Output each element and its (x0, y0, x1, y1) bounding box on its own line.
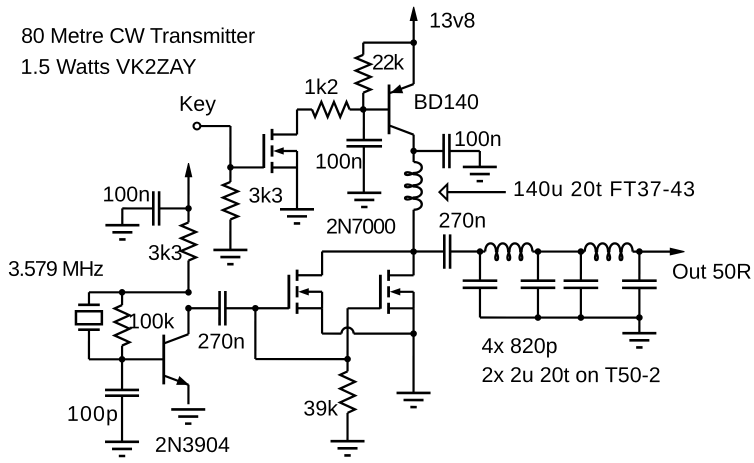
svg-text:3k3: 3k3 (249, 183, 284, 207)
node Q2 collector junction (410, 148, 417, 155)
capacitor C5 270n (220, 291, 226, 325)
ground below C6 (105, 442, 139, 456)
wire C10 bottom lead (638, 288, 640, 317)
wire C7 bottom lead (479, 288, 481, 317)
wire filter mid rail (538, 250, 585, 252)
wire M2 source right (322, 332, 341, 334)
svg-text:100n: 100n (454, 127, 502, 151)
svg-text:1.5 Watts VK2ZAY: 1.5 Watts VK2ZAY (21, 55, 197, 79)
node filter mid2 (578, 248, 585, 255)
wire L3 lead out (633, 250, 640, 252)
wire RFC top lead (413, 151, 415, 162)
wire crystal bottom rail (89, 358, 164, 360)
node gate junction (252, 305, 259, 312)
wire M3 drain up (412, 252, 414, 276)
node Q1 collector junction (185, 305, 192, 312)
svg-text:100p: 100p (67, 402, 118, 426)
transistor M2 2N7000 PA (289, 270, 322, 314)
svg-text:13v8: 13v8 (429, 9, 475, 33)
transistor M1 2N7000 keying (264, 129, 297, 173)
wire C7 top lead (479, 252, 481, 281)
wire to output (639, 250, 671, 252)
wire key corner down (229, 126, 231, 167)
node bottom out (636, 314, 643, 321)
wire 1k2 right lead (350, 108, 364, 110)
wire crystal top lead (88, 292, 90, 305)
node bottom mid1 (535, 314, 542, 321)
wire L2 lead in (480, 250, 485, 252)
resistor R4 3k3 (181, 222, 196, 260)
wire M1 drain up (296, 109, 298, 134)
svg-text:2N3904: 2N3904 (155, 433, 230, 457)
wire gate bottom (255, 358, 347, 360)
wire gate junction to M2 (255, 307, 289, 309)
svg-text:39k: 39k (303, 396, 338, 420)
wire RFC bottom lead (412, 210, 414, 252)
svg-text:2x 2u 20t on T50-2: 2x 2u 20t on T50-2 (481, 363, 660, 387)
node filter in (477, 248, 484, 255)
key terminal (194, 123, 201, 130)
ground below R3 (213, 250, 247, 264)
wire M1 source down (296, 167, 298, 209)
capacitor C4 270n (444, 234, 450, 268)
wire 13v8 riser (413, 18, 415, 43)
wire R5 bottom lead (121, 346, 123, 360)
wire R4 top lead (187, 208, 189, 222)
wire C6 top lead (121, 359, 123, 390)
transistor M3 2N7000 PA (380, 270, 413, 314)
wire R4 bottom lead (187, 261, 189, 293)
resistor R2 1k2 (312, 102, 350, 117)
node key junction (227, 164, 234, 171)
node supply junction (410, 39, 417, 46)
wire R3 top lead (229, 167, 231, 182)
inductor L2 2u (485, 243, 532, 260)
capacitor C7 820p (463, 281, 498, 288)
node R5 top (119, 289, 126, 296)
transistor Q2 BD140 (389, 43, 414, 151)
resistor R1 22k (356, 55, 371, 93)
svg-text:Key: Key (179, 92, 216, 116)
ground below Q1 emitter (171, 409, 205, 423)
wire to C3 (414, 150, 444, 152)
ground below filter (622, 333, 656, 347)
wire C8 bottom lead (537, 288, 539, 317)
wire key to M1 gate (230, 166, 263, 168)
wire filter bottom rail (480, 316, 639, 318)
ground below M1 source (280, 209, 314, 223)
node PA drain junction (410, 248, 417, 255)
wire crystal bottom lead (88, 330, 90, 360)
svg-text:270n: 270n (197, 329, 245, 353)
arrow keyed supply feed (185, 163, 191, 177)
svg-text:100n: 100n (315, 149, 363, 173)
node R6 junction (344, 356, 351, 363)
svg-text:80 Metre CW Transmitter: 80 Metre CW Transmitter (21, 24, 255, 48)
inductor L3 2u (585, 243, 633, 260)
wire base junction to BD140 (363, 108, 389, 110)
svg-text:1k2: 1k2 (304, 75, 339, 99)
wire ground lead filter (638, 318, 640, 334)
node R5 bottom (119, 356, 126, 363)
ground below C3 (463, 167, 497, 181)
node PA source junction (410, 330, 417, 337)
wire to M3 gate (348, 307, 381, 309)
capacitor C6 100p (105, 390, 139, 396)
crystal X1 3.579 MHz (76, 305, 102, 330)
svg-text:100n: 100n (103, 182, 151, 206)
wire C3 to ground drop (449, 150, 479, 152)
arrow L1 annotation (439, 184, 447, 200)
wire to C4 (414, 250, 445, 252)
svg-text:BD140: BD140 (414, 90, 480, 114)
wire crystal rail (89, 291, 188, 293)
svg-text:3k3: 3k3 (148, 241, 183, 265)
wire R5 top lead (121, 292, 123, 305)
wire C10 top lead (638, 252, 640, 281)
wire C6 bottom lead (121, 396, 123, 442)
wire 22k bottom lead (362, 93, 364, 110)
capacitor C1 100n (153, 191, 159, 225)
wire 1k2 left lead (297, 108, 312, 110)
wire R3 bottom lead (229, 219, 231, 250)
svg-text:2N7000: 2N7000 (326, 214, 396, 238)
ground below R6 (331, 441, 365, 455)
inductor L1 RFC 140u (405, 162, 422, 210)
resistor R5 100k (115, 305, 130, 346)
wire R6 bottom lead (346, 413, 348, 441)
wire C9 top lead (580, 252, 582, 281)
wire hop over gate (341, 327, 353, 333)
svg-text:22k: 22k (372, 50, 404, 74)
wire 22k top (363, 41, 413, 43)
svg-text:270n: 270n (438, 209, 486, 233)
svg-text:3.579 MHz: 3.579 MHz (8, 257, 104, 281)
wire R6 top lead (346, 359, 348, 371)
wire C2 bottom lead (363, 146, 365, 193)
wire source join (354, 332, 414, 334)
svg-text:140u 20t FT37-43: 140u 20t FT37-43 (513, 177, 695, 201)
wire 22k top lead (362, 43, 364, 55)
wire R6 junction up (346, 308, 348, 359)
wire M2 drain up (321, 251, 323, 275)
wire C8 top lead (537, 252, 539, 281)
arrow 13v8 supply (410, 7, 417, 21)
wire C1 left lead (122, 207, 153, 209)
node filter mid1 (535, 248, 542, 255)
node bottom mid2 (578, 314, 585, 321)
wire to C5 (188, 307, 219, 309)
capacitor C8 820p (521, 281, 556, 288)
capacitor C9 820p (564, 281, 599, 288)
capacitor C10 820p (622, 281, 657, 288)
wire gate down (254, 308, 256, 359)
resistor R6 39k (340, 371, 355, 413)
node filter out (636, 248, 643, 255)
svg-text:Out 50R: Out 50R (672, 260, 752, 284)
svg-text:100k: 100k (128, 309, 175, 333)
ground below C2 (347, 193, 381, 207)
wire C1 right lead (159, 207, 188, 209)
node base junction (360, 106, 367, 113)
node osc supply junction (185, 205, 192, 212)
wire C9 bottom lead (580, 288, 582, 317)
wire C2 top lead (363, 109, 365, 140)
transistor Q1 2N3904 (164, 308, 190, 404)
svg-text:4x 820p: 4x 820p (481, 334, 557, 358)
wire M2 source down (321, 308, 323, 333)
wire PA drain rail (322, 250, 413, 252)
wire L2 lead out (532, 250, 538, 252)
ground below M3 source (397, 393, 431, 407)
capacitor C2 100n (346, 140, 382, 146)
resistor R3 3k3 (223, 182, 238, 220)
capacitor C3 100n (444, 134, 450, 168)
wire key to corner (201, 125, 231, 127)
wire M3 source down (412, 308, 414, 393)
ground below C1 (105, 225, 139, 239)
wire C4 to filter (450, 250, 480, 252)
wire C5 to gate junction (225, 307, 255, 309)
arrow output (670, 248, 684, 255)
node crystal rail right (185, 289, 192, 296)
